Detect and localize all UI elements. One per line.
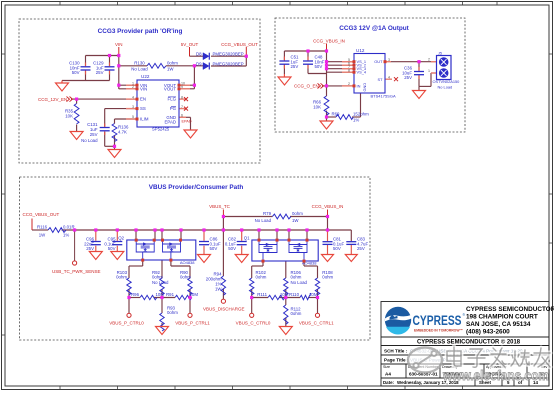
svg-text:PMEG3020BEP: PMEG3020BEP	[213, 52, 244, 57]
svg-text:8: 8	[348, 68, 350, 72]
svg-text:0ohm: 0ohm	[292, 211, 303, 216]
svg-text:7: 7	[181, 105, 183, 109]
svg-text:VBUS_C_CTRL0: VBUS_C_CTRL0	[236, 321, 271, 326]
svg-text:VBUS_DISCHARGE: VBUS_DISCHARGE	[203, 307, 245, 312]
svg-text:R69: R69	[332, 111, 341, 116]
svg-text:EMBEDDED IN TOMORROW™: EMBEDDED IN TOMORROW™	[414, 329, 463, 333]
svg-text:VIN: VIN	[115, 42, 123, 47]
svg-text:CCG_VBUS_OUT: CCG_VBUS_OUT	[221, 42, 258, 47]
svg-text:CYPRESS SEMICONDUCTOR: CYPRESS SEMICONDUCTOR	[466, 306, 554, 313]
svg-text:3: 3	[388, 58, 390, 62]
svg-text:25V: 25V	[86, 246, 94, 251]
svg-text:No Load: No Load	[438, 85, 453, 90]
svg-text:CCG3 Provider path 'OR'ing: CCG3 Provider path 'OR'ing	[98, 28, 183, 35]
svg-text:No Load: No Load	[131, 66, 148, 71]
svg-text:0.01R: 0.01R	[63, 224, 75, 229]
svg-text:Page Title :: Page Title :	[384, 358, 409, 363]
svg-text:VOUT: VOUT	[164, 86, 176, 91]
svg-text:50V: 50V	[333, 246, 341, 251]
svg-text:5: 5	[132, 115, 134, 119]
svg-text:Size: Size	[383, 365, 390, 369]
svg-text:25V: 25V	[357, 246, 365, 251]
svg-text:D8: D8	[196, 52, 202, 57]
svg-text:ILIM: ILIM	[140, 117, 149, 122]
svg-text:CCG_VBUS_IN: CCG_VBUS_IN	[312, 204, 344, 209]
svg-text:1W: 1W	[292, 218, 299, 223]
svg-text:0ohm: 0ohm	[291, 275, 302, 280]
svg-text:50V: 50V	[210, 246, 218, 251]
svg-text:25V: 25V	[96, 70, 104, 75]
svg-text:1W: 1W	[167, 66, 174, 71]
svg-text:4.7K: 4.7K	[118, 130, 127, 135]
svg-text:BTS4175SGA: BTS4175SGA	[371, 94, 396, 99]
svg-text:50V: 50V	[228, 246, 236, 251]
svg-text:50V: 50V	[315, 64, 323, 69]
svg-text:www.elecfans.com: www.elecfans.com	[442, 368, 549, 383]
svg-text:(408) 943-2600: (408) 943-2600	[466, 329, 510, 336]
svg-text:CCG_VBUS_IN: CCG_VBUS_IN	[313, 39, 345, 44]
svg-text:SS: SS	[140, 106, 146, 111]
svg-text:5V_OUT: 5V_OUT	[181, 42, 199, 47]
svg-text:AO4838: AO4838	[180, 260, 195, 265]
svg-text:ST: ST	[378, 77, 384, 82]
svg-text:R79: R79	[263, 211, 272, 216]
svg-text:No Load: No Load	[152, 280, 169, 285]
svg-text:U12: U12	[356, 48, 365, 53]
svg-text:VBUS_P_CTRL0: VBUS_P_CTRL0	[109, 321, 144, 326]
svg-text:EN: EN	[140, 97, 146, 102]
svg-text:0ohm: 0ohm	[167, 310, 178, 315]
svg-text:R110: R110	[289, 292, 300, 297]
svg-text:0ohm: 0ohm	[322, 275, 333, 280]
svg-text:OUT: OUT	[374, 59, 383, 64]
svg-text:FLG: FLG	[168, 97, 177, 102]
svg-text:0ohm: 0ohm	[180, 275, 191, 280]
svg-text:0ohm: 0ohm	[291, 311, 302, 316]
svg-text:10K: 10K	[313, 105, 321, 110]
svg-text:CCG_VBUS_OUT: CCG_VBUS_OUT	[23, 212, 60, 217]
svg-text:1: 1	[428, 69, 430, 73]
svg-text:CCG3 12V @1A Output: CCG3 12V @1A Output	[339, 25, 409, 32]
svg-text:U22: U22	[141, 74, 150, 79]
svg-text:50V: 50V	[108, 246, 116, 251]
svg-text:R130: R130	[134, 60, 145, 65]
svg-text:SAN JOSE, CA 95134: SAN JOSE, CA 95134	[466, 321, 531, 328]
svg-text:No Load: No Load	[291, 280, 308, 285]
svg-text:0ohm: 0ohm	[256, 275, 267, 280]
svg-text:R96: R96	[131, 292, 140, 297]
svg-text:GND: GND	[362, 83, 367, 92]
svg-text:3: 3	[132, 105, 134, 109]
svg-text:EPAD: EPAD	[164, 120, 176, 125]
svg-text:VBUS_TC: VBUS_TC	[209, 204, 231, 209]
svg-text:CYPRESS SEMICONDUCTOR © 2018: CYPRESS SEMICONDUCTOR © 2018	[417, 339, 521, 346]
svg-text:2: 2	[428, 58, 430, 62]
svg-text:2: 2	[132, 85, 134, 89]
svg-text:4: 4	[132, 95, 134, 99]
svg-text:No Load: No Load	[255, 218, 272, 223]
svg-text:PMEG3020BEP: PMEG3020BEP	[213, 61, 244, 66]
svg-text:25V: 25V	[291, 64, 299, 69]
svg-text:1W: 1W	[39, 232, 46, 237]
svg-text:A4: A4	[385, 372, 391, 377]
svg-text:SP52425: SP52425	[152, 127, 170, 132]
svg-text:198 CHAMPION COURT: 198 CHAMPION COURT	[466, 314, 538, 321]
svg-text:0ohm: 0ohm	[152, 275, 163, 280]
svg-text:1%: 1%	[63, 232, 69, 237]
svg-text:R111: R111	[257, 292, 267, 297]
svg-text:VBUS Provider/Consumer Path: VBUS Provider/Consumer Path	[149, 184, 244, 191]
svg-text:D9: D9	[196, 61, 202, 66]
svg-text:50V: 50V	[72, 70, 80, 75]
svg-text:J5: J5	[438, 52, 442, 56]
svg-text:VBUS_P_CTRL1: VBUS_P_CTRL1	[175, 321, 210, 326]
svg-text:1%: 1%	[353, 117, 359, 122]
svg-text:IN: IN	[357, 83, 361, 88]
svg-text:No Load: No Load	[81, 138, 98, 143]
svg-text:1W: 1W	[215, 287, 222, 292]
svg-text:4: 4	[388, 75, 390, 79]
svg-text:0ohm: 0ohm	[167, 60, 178, 65]
svg-text:8: 8	[181, 95, 183, 99]
svg-text:Q2: Q2	[118, 236, 124, 241]
svg-text:10K: 10K	[65, 114, 73, 119]
svg-text:SCH Title :: SCH Title :	[384, 349, 408, 354]
svg-text:R116: R116	[37, 224, 48, 229]
svg-text:25V: 25V	[404, 75, 412, 80]
svg-text:R91: R91	[166, 292, 175, 297]
svg-text:9: 9	[181, 85, 183, 89]
svg-text:CCG_O_EN: CCG_O_EN	[294, 84, 319, 89]
svg-text:25V: 25V	[90, 132, 98, 137]
svg-text:6: 6	[181, 114, 183, 118]
svg-text:VS_4: VS_4	[357, 70, 367, 75]
svg-text:USB_TC_PWR_SENSE: USB_TC_PWR_SENSE	[52, 269, 101, 274]
svg-text:VBUS_C_CTRL1: VBUS_C_CTRL1	[299, 321, 334, 326]
svg-text:2: 2	[348, 82, 350, 86]
svg-text:PG: PG	[170, 106, 177, 111]
svg-text:Date:: Date:	[383, 380, 395, 385]
svg-text:CCG_12V_EN: CCG_12V_EN	[38, 97, 67, 102]
svg-text:VIN: VIN	[140, 86, 147, 91]
svg-text:152ohm: 152ohm	[353, 111, 369, 116]
svg-text:EPAD: EPAD	[182, 120, 192, 124]
svg-text:OSTVN02A150: OSTVN02A150	[433, 79, 461, 84]
svg-text:CYPRESS: CYPRESS	[413, 313, 462, 328]
svg-text:Q1: Q1	[244, 236, 250, 241]
svg-text:0ohm: 0ohm	[116, 275, 127, 280]
